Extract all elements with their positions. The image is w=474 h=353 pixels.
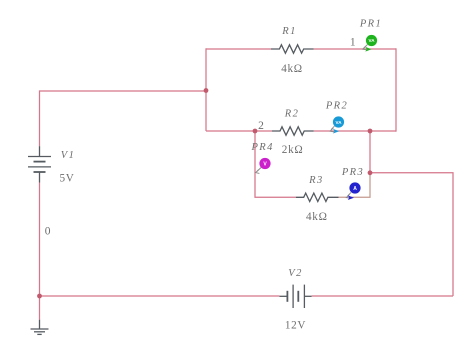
- wire node 2 branch down and to R3: [255, 131, 296, 197]
- svg-text:2kΩ: 2kΩ: [282, 144, 304, 156]
- svg-text:12V: 12V: [285, 320, 306, 332]
- probe PR1: [363, 35, 378, 52]
- value 5V of V1: [59, 172, 74, 184]
- battery V1: [28, 146, 51, 182]
- node 1: [350, 37, 356, 49]
- svg-text:A: A: [353, 186, 357, 192]
- svg-text:R2: R2: [284, 109, 299, 120]
- svg-text:R3: R3: [308, 175, 323, 186]
- label PR2: [325, 101, 348, 112]
- wire middle row right: [314, 130, 396, 132]
- wire bottom right segment: [312, 295, 453, 297]
- svg-text:0: 0: [45, 226, 51, 238]
- label PR1: [359, 19, 382, 30]
- wire from V1 plus terminal to node A: [40, 91, 207, 146]
- svg-text:PR4: PR4: [250, 142, 273, 153]
- svg-text:R1: R1: [281, 26, 296, 37]
- ground: [31, 320, 49, 335]
- label V1: [61, 150, 75, 161]
- junction PR3 node at 370,173: [368, 170, 373, 175]
- resistor R3: [296, 193, 339, 201]
- svg-text:PR1: PR1: [359, 19, 382, 30]
- svg-text:V2: V2: [288, 268, 302, 279]
- node 0: [45, 226, 51, 238]
- battery V2: [279, 285, 311, 308]
- wire top left segment: [206, 48, 271, 50]
- junction at 370,131: [368, 129, 373, 134]
- probe PR2: [330, 116, 344, 133]
- svg-text:2: 2: [258, 120, 264, 132]
- wire middle row left: [206, 130, 272, 132]
- svg-text:5V: 5V: [59, 172, 74, 184]
- label PR4: [250, 142, 273, 153]
- svg-text:VA: VA: [369, 38, 376, 43]
- wire PR3 node to right edge and down: [370, 173, 453, 296]
- value 4kΩ of R3: [306, 211, 328, 223]
- value 4kΩ of R1: [281, 63, 303, 75]
- svg-text:V1: V1: [61, 150, 75, 161]
- wire top right segment: [314, 48, 397, 50]
- junction ground node at 39.5,296: [37, 294, 42, 299]
- wire right vertical of top loop: [395, 48, 397, 131]
- label PR3: [341, 167, 364, 178]
- svg-text:4kΩ: 4kΩ: [306, 211, 328, 223]
- svg-text:PR2: PR2: [325, 101, 348, 112]
- wire R3 right to corner: [339, 173, 371, 197]
- probe PR3: [346, 182, 360, 200]
- label R1: [281, 26, 296, 37]
- svg-text:VA: VA: [336, 120, 343, 125]
- resistor R2: [272, 127, 314, 135]
- junction node 2 at 255,131: [253, 129, 258, 134]
- svg-text:4kΩ: 4kΩ: [281, 63, 303, 75]
- wire left vertical of top loop: [205, 48, 207, 131]
- svg-text:PR3: PR3: [341, 167, 364, 178]
- resistor R1: [271, 45, 314, 53]
- probe PR4: [256, 158, 271, 174]
- label V2: [288, 268, 302, 279]
- junction node A at 206,90: [204, 88, 209, 93]
- label R2: [284, 109, 299, 120]
- svg-text:1: 1: [350, 37, 356, 49]
- label R3: [308, 175, 323, 186]
- value 12V of V2: [285, 320, 306, 332]
- wire vertical between middle row and PR3 node: [369, 131, 371, 173]
- wire bottom left segment: [40, 295, 280, 297]
- value 2kΩ of R2: [282, 144, 304, 156]
- node 2: [258, 120, 264, 132]
- wire V1 minus terminal down to bottom rail: [39, 183, 41, 320]
